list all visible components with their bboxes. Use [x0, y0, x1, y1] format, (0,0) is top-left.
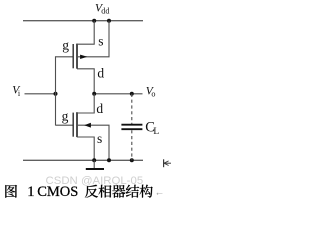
input wire Vi [25, 93, 56, 95]
transistor Q1 PMOS [56, 21, 110, 94]
caption char 结 [126, 185, 139, 198]
caption char 图 [5, 185, 17, 198]
Q2 bulk arrow (points left, NMOS) [84, 123, 91, 128]
Q2 gate bar [72, 113, 74, 137]
Q1 gate bar [72, 44, 74, 68]
svg-text:dd: dd [101, 6, 109, 15]
node: NMOS bulk to ground junction [107, 158, 111, 162]
Q1 channel bar [76, 44, 78, 69]
node: drains junction [92, 92, 96, 96]
caption char 反 [85, 185, 98, 198]
Vdd rail [23, 20, 143, 22]
Q1 bulk arrow (points right, PMOS) [80, 55, 87, 59]
ground symbol bar [86, 168, 104, 170]
wire (dashed) output to CL [131, 94, 133, 124]
Q1 drain lead [77, 69, 94, 94]
node: CL to ground junction [130, 158, 134, 162]
cropped dimension arrow at right edge [164, 159, 171, 167]
svg-text:g: g [62, 38, 69, 53]
svg-text:L: L [153, 127, 159, 137]
svg-text:s: s [97, 131, 102, 146]
svg-text:o: o [151, 90, 155, 99]
wire (dashed) CL to ground [131, 130, 133, 160]
capacitor C_L top plate [121, 124, 142, 126]
node: NMOS source to ground junction [92, 158, 96, 162]
node: PMOS source to Vdd junction [92, 19, 96, 23]
svg-text:←: ← [155, 188, 165, 199]
input vertical wire to both gates [55, 56, 57, 125]
capacitor C_L bottom plate [121, 128, 142, 130]
svg-text:s: s [98, 34, 103, 49]
svg-text:d: d [96, 101, 103, 116]
svg-text:d: d [97, 66, 104, 81]
Q2 source lead [77, 137, 94, 160]
transistor Q2 NMOS [56, 94, 110, 161]
caption char 器 [112, 185, 125, 198]
Q2 drain lead [77, 94, 94, 113]
node: PMOS bulk to Vdd junction [107, 19, 111, 23]
Q1 gate wire [56, 56, 73, 58]
Q1 source lead [77, 21, 94, 45]
svg-text:CMOS: CMOS [37, 184, 78, 200]
Q2 bulk lead [77, 125, 109, 160]
caption char 构 [140, 185, 153, 198]
Q1 bulk lead [77, 21, 109, 57]
input node junction [54, 92, 58, 96]
ground symbol stub [93, 160, 95, 169]
output wire to Vo [94, 93, 142, 95]
ground rail [23, 159, 143, 161]
node: output Vo junction [130, 92, 134, 96]
svg-text:g: g [62, 109, 69, 124]
svg-text:1: 1 [27, 184, 34, 200]
Q2 channel bar [76, 112, 78, 137]
Q2 gate wire [56, 124, 73, 126]
caption char 相 [98, 185, 111, 198]
